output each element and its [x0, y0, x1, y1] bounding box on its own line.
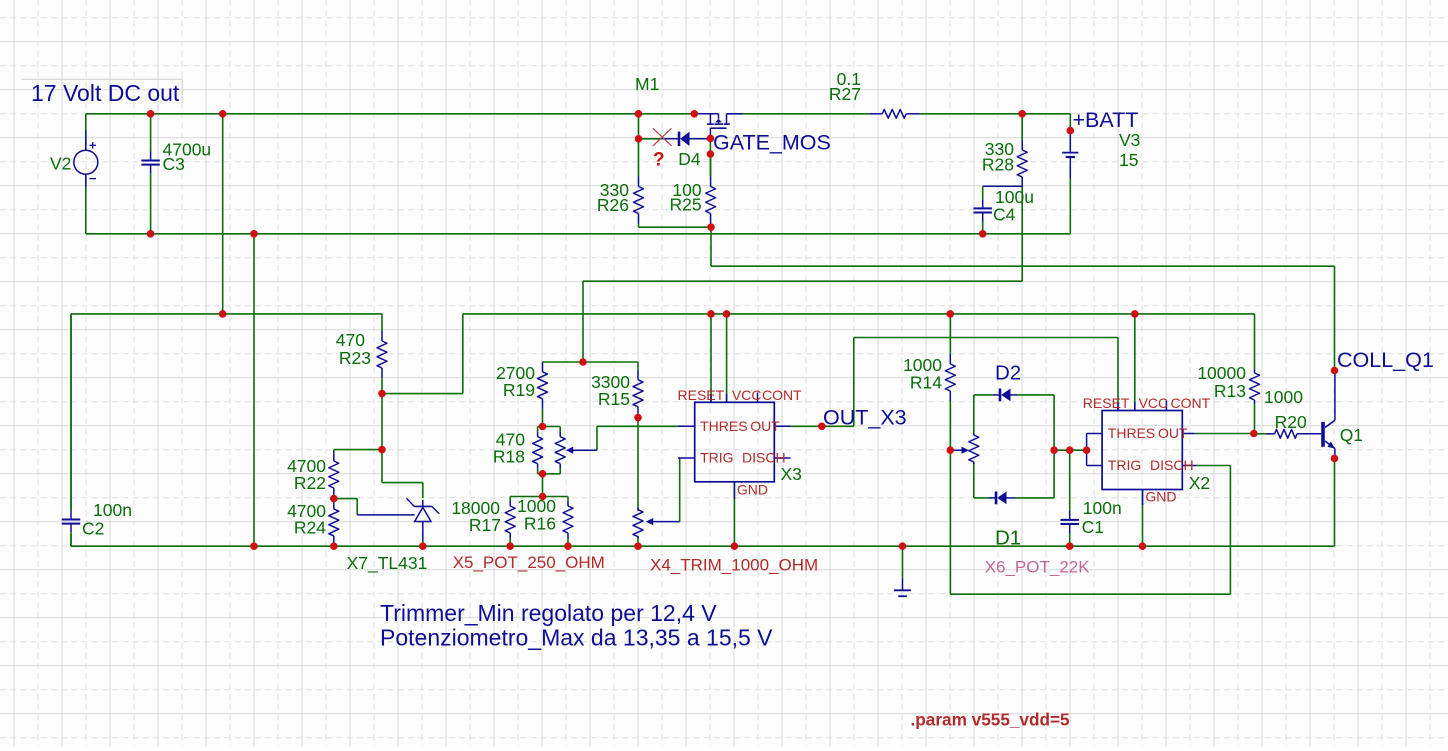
svg-text:RESET: RESET [1083, 395, 1130, 411]
voltage source V2 [74, 130, 98, 187]
svg-text:R15: R15 [598, 389, 630, 409]
wire V2 to rail risers [85, 114, 87, 234]
svg-text:DISCH: DISCH [1150, 457, 1194, 473]
label R14 1000 [903, 355, 942, 393]
wire R22 top branch [334, 450, 382, 451]
wire X3 TRIG down to X4 wiper [679, 458, 681, 522]
svg-text:X7_TL431: X7_TL431 [347, 553, 428, 574]
resistor R23 [377, 314, 387, 394]
net label GATE_MOS [713, 131, 831, 155]
resistor R14 [945, 314, 955, 450]
label R18 470 [493, 430, 525, 467]
svg-text:C3: C3 [163, 154, 185, 174]
label R15 3300 [591, 372, 630, 409]
wire Q1 emitter to ground rail [1334, 458, 1336, 546]
wire X6 diode loop top branch [974, 394, 1054, 396]
svg-text:X2: X2 [1189, 473, 1210, 493]
svg-text:GND: GND [1145, 489, 1176, 505]
svg-text:Trimmer_Min regolato per 12,4: Trimmer_Min regolato per 12,4 V [380, 600, 717, 626]
label R20 1000 [1264, 387, 1307, 432]
text 17 Volt DC out [31, 80, 180, 106]
wire R26 bottom to R25 bottom [639, 224, 712, 227]
wire X3 OUT to net OUT_X3 and to X2 RESET [791, 338, 1119, 427]
label X5_POT_250_OHM [453, 553, 605, 572]
svg-text:CONT: CONT [762, 387, 802, 403]
potentiometer X6 wiper arrow [950, 447, 969, 454]
svg-text:R13: R13 [1214, 381, 1246, 401]
label M1 [635, 74, 659, 94]
capacitor C2 [62, 314, 81, 546]
resistor R17 [505, 497, 515, 547]
wire R25 bottom down to lower rail y=266 [710, 227, 712, 266]
svg-text:D2: D2 [995, 362, 1021, 385]
wire left column x=71 with C2 [70, 314, 72, 546]
label C1 100n [1082, 498, 1122, 537]
annotation Potenziometro_Max [380, 625, 773, 651]
net label OUT_X3 [823, 406, 907, 430]
label R13 10000 [1197, 363, 1246, 401]
label C4 100u [993, 187, 1034, 225]
TL431 shunt regulator X7 [357, 498, 439, 541]
potentiometer X5 wiper arrow [566, 447, 597, 454]
label V3 15 [1119, 130, 1140, 170]
svg-text:?: ? [653, 150, 665, 171]
potentiometer X5 element [555, 427, 565, 474]
svg-text:VCC: VCC [732, 387, 762, 403]
wire ground rail y=546.2 [71, 545, 1335, 547]
resistor R20 [1266, 429, 1322, 438]
svg-text:D4: D4 [678, 149, 701, 169]
svg-text:X6_POT_22K: X6_POT_22K [985, 558, 1091, 577]
svg-text:TRIG: TRIG [1108, 457, 1141, 473]
svg-text:OUT_X3: OUT_X3 [823, 406, 907, 430]
svg-text:X3: X3 [781, 464, 802, 484]
wire R15 bottom to X4 trimmer top [637, 418, 639, 511]
wire X2 THRES-TRIG tie jog [1087, 434, 1103, 466]
svg-text:C1: C1 [1082, 517, 1104, 537]
net label COLL_Q1 [1337, 348, 1434, 372]
svg-text:17 Volt DC out: 17 Volt DC out [31, 80, 180, 106]
wire battery V3 bottom to return rail [1069, 179, 1071, 234]
wire vertical feed x=222.7 from +17V rail down to mid rail [222, 114, 224, 314]
wire R17/R16 top tie [510, 496, 568, 498]
svg-text:100n: 100n [93, 500, 132, 520]
svg-text:R19: R19 [503, 380, 535, 400]
svg-text:RESET: RESET [678, 387, 725, 403]
capacitor C4 [973, 186, 1022, 234]
label R25 100 [669, 180, 701, 215]
svg-text:R23: R23 [339, 348, 371, 368]
svg-text:THRES: THRES [700, 418, 747, 434]
svg-text:R22: R22 [294, 473, 326, 493]
wire gate node GATE_MOS vertical [709, 138, 711, 176]
label V2 [50, 153, 71, 173]
svg-text:R28: R28 [982, 155, 1014, 175]
svg-text:.param v555_vdd=5: .param v555_vdd=5 [911, 710, 1071, 730]
resistor R16 [563, 497, 573, 547]
wire X6 diode loop right side [1053, 395, 1055, 498]
svg-text:10000: 10000 [1197, 363, 1246, 383]
svg-text:COLL_Q1: COLL_Q1 [1337, 348, 1434, 372]
wire X5 pot wiper to THRES of X3 [597, 426, 678, 450]
svg-text:V2: V2 [50, 153, 71, 173]
svg-text:R25: R25 [669, 195, 701, 215]
capacitor C3 [141, 114, 160, 234]
wire bottom return rail of input section [86, 233, 1071, 235]
svg-text:TRIG: TRIG [700, 450, 733, 466]
svg-text:OUT: OUT [750, 418, 780, 434]
wire R14 column [949, 314, 951, 450]
label X4_TRIM_1000_OHM [650, 556, 818, 575]
svg-text:R14: R14 [910, 373, 942, 393]
label X6_POT_22K [985, 558, 1091, 577]
wire lower rail y=266 to Q1 collector column [711, 266, 1335, 370]
label D4 [678, 149, 701, 169]
potentiometer X6 element [969, 433, 979, 464]
wire X3 VCC riser [726, 314, 728, 402]
label R23 470 [336, 330, 371, 368]
wire R23 bottom node to mid rail right segment [382, 314, 1255, 394]
wire X2 GND to ground rail [1142, 490, 1144, 547]
svg-text:GATE_MOS: GATE_MOS [713, 131, 831, 155]
ground flag [894, 578, 911, 597]
wire X3 GND to ground rail [733, 482, 735, 546]
label R24 4700 [287, 501, 326, 538]
resistor R19 [538, 362, 548, 427]
wire R28 top connection [1021, 114, 1023, 140]
label C2 100n [82, 500, 132, 539]
label R17 18000 [451, 498, 501, 535]
wire top +17V rail [86, 114, 1071, 131]
svg-text:R27: R27 [829, 84, 861, 104]
svg-text:M1: M1 [635, 74, 659, 94]
wire X6 diode loop bottom branch [974, 497, 1054, 499]
svg-text:C2: C2 [82, 519, 104, 539]
wire ground flag stem [902, 546, 904, 578]
label X2 [1189, 473, 1210, 493]
svg-text:OUT: OUT [1158, 425, 1188, 441]
label Q1 [1340, 425, 1363, 445]
svg-text:C4: C4 [993, 205, 1016, 225]
diode D1 [989, 492, 1015, 505]
label R22 4700 [287, 456, 326, 493]
555 timer X3 body [678, 393, 791, 500]
resistor R18 [533, 427, 543, 474]
error cross marker at D4 [653, 128, 672, 146]
svg-text:+BATT: +BATT [1073, 108, 1139, 132]
MOSFET M1 [694, 114, 742, 139]
label C3 value 4700u [163, 140, 212, 175]
selection artifact box around title [21, 79, 182, 103]
svg-text:D1: D1 [995, 527, 1021, 550]
svg-text:R16: R16 [524, 514, 556, 534]
wire D4 anode node / gate drive column [639, 114, 661, 139]
wire X6 pot loop left side [973, 395, 975, 498]
wire diode node to C1 and X2 THRES/TRIG [1054, 449, 1087, 451]
svg-text:GND: GND [737, 481, 768, 497]
svg-text:Q1: Q1 [1340, 425, 1363, 445]
diode D4 [660, 132, 710, 146]
label X3 [781, 464, 802, 484]
X2 pin labels [1083, 395, 1211, 504]
transistor Q1 [1321, 371, 1335, 459]
svg-text:R24: R24 [294, 518, 326, 538]
spice directive .param [911, 710, 1071, 730]
resistor R15 [633, 362, 643, 418]
svg-text:VCC: VCC [1139, 395, 1169, 411]
question mark marker [653, 150, 665, 171]
resistor R26 [634, 139, 644, 224]
label R27 0.1 [829, 69, 861, 104]
diode D2 [993, 389, 1017, 402]
annotation Trimmer_Min [380, 600, 717, 626]
trimmer X4 element [633, 508, 643, 539]
wire vertical x=254 from return rail down to ground rail [253, 234, 255, 546]
svg-text:1000: 1000 [1264, 387, 1303, 407]
wire X2 VCC riser [1134, 314, 1136, 411]
svg-text:15: 15 [1119, 150, 1138, 170]
label R26 330 [597, 180, 629, 215]
label R28 330 [982, 139, 1014, 175]
svg-text:R17: R17 [469, 515, 501, 535]
svg-text:R18: R18 [493, 447, 525, 467]
svg-text:Potenziometro_Max da 13,35 a 1: Potenziometro_Max da 13,35 a 15,5 V [380, 625, 773, 651]
wire X3 RESET riser [710, 314, 712, 402]
X3 pin labels [678, 387, 803, 497]
wire TL431 anode to ground rail [422, 541, 424, 546]
svg-text:V3: V3 [1119, 130, 1140, 150]
battery V3 [1062, 131, 1078, 179]
label R16 1000 [517, 496, 556, 534]
resistor R27 [870, 109, 920, 118]
net label +BATT [1073, 108, 1139, 132]
svg-text:CONT: CONT [1171, 395, 1211, 411]
wire R23 node down to R22 node and TL431 cathode [382, 394, 423, 498]
wire R13 column [1254, 314, 1256, 434]
wire R18 / X5 pot parallel branch frame [538, 427, 561, 497]
label D2 [995, 362, 1021, 385]
wire X2 DISCH loop to R14/X6-wiper node [950, 450, 1230, 594]
svg-text:X4_TRIM_1000_OHM: X4_TRIM_1000_OHM [650, 556, 818, 575]
resistor R28 [1017, 114, 1027, 187]
wire TL431 ref connection [334, 499, 357, 515]
wire X2 OUT to R13/R20 node [1194, 433, 1253, 435]
label X7_TL431 [347, 553, 428, 574]
resistor R22 [329, 451, 339, 499]
svg-text:THRES: THRES [1108, 425, 1155, 441]
capacitor C1 [1060, 450, 1079, 546]
svg-text:100n: 100n [1083, 498, 1122, 518]
trimmer X4 wiper arrow [646, 518, 680, 525]
resistor R13 [1250, 363, 1260, 410]
resistor R24 [329, 499, 339, 547]
svg-text:DISCH: DISCH [742, 450, 786, 466]
svg-text:R26: R26 [597, 195, 629, 215]
svg-text:470: 470 [336, 330, 365, 350]
wire R28/C4 node down and across to reference chain top [583, 186, 1022, 362]
resistor R25 [706, 154, 716, 227]
555 timer X2 body [1102, 401, 1197, 505]
wire R19/R15 top tie y=362 [543, 361, 639, 363]
wire X4 trimmer bottom to ground rail [637, 536, 639, 546]
wire R20 left lead wire [1254, 433, 1266, 435]
label R19 2700 [496, 363, 535, 400]
label D1 [995, 527, 1021, 550]
svg-text:X5_POT_250_OHM: X5_POT_250_OHM [453, 553, 605, 572]
svg-text:R20: R20 [1275, 412, 1307, 432]
wire mid rail left segment y=313.9 [71, 313, 382, 315]
